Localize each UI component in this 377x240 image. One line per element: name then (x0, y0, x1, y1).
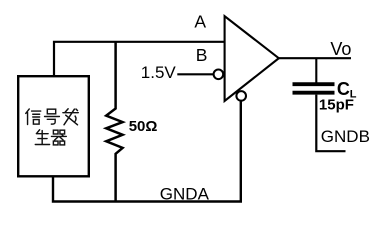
svg-text:Vo: Vo (330, 39, 351, 59)
svg-text:GNDA: GNDA (160, 185, 210, 204)
signal generator label 信号发生器 (26, 109, 79, 145)
signal generator box (18, 76, 89, 176)
capacitor CL bottom plate (293, 91, 335, 95)
svg-text:15pF: 15pF (319, 97, 354, 114)
wire: bottom GNDA net (generator bottom, along bottom, up to enable bubble) (53, 100, 241, 201)
svg-text:A: A (194, 11, 206, 31)
wire: top net from generator to input A (54, 42, 225, 76)
wire: B input from 1.5V to bubble (177, 73, 214, 75)
svg-text:GNDB: GNDB (321, 127, 370, 146)
glyph 号 (45, 109, 60, 124)
glyph 信 (26, 109, 41, 125)
ground GNDB (lead down + ground bar) (316, 95, 345, 152)
capacitor CL top lead (315, 58, 317, 84)
wire: output Vo (279, 57, 351, 59)
inverting bubble on B input (214, 70, 224, 80)
svg-text:50Ω: 50Ω (129, 118, 158, 135)
op-amp U1 (comparator triangle) (225, 16, 279, 101)
inverting bubble on enable (bottom edge) (236, 91, 246, 101)
glyph 生 (35, 130, 49, 145)
glyph 器 (51, 130, 66, 145)
svg-text:B: B (196, 45, 208, 65)
resistor R1 50 ohm (zigzag + leads) (106, 42, 122, 202)
glyph 发 (63, 109, 78, 125)
svg-text:1.5V: 1.5V (141, 63, 177, 82)
capacitor CL top plate (293, 82, 335, 86)
